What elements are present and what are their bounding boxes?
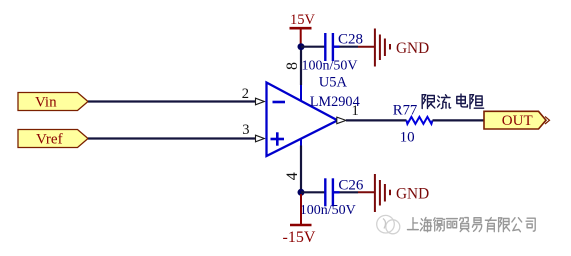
label 限流电阻 (current-limiting resistor) [422,94,483,108]
pin 8 lead (blue) [300,85,302,102]
pin 2 arrowhead [256,98,265,105]
port Vref [18,130,88,148]
wire R77 to OUT [433,119,485,121]
svg-text:2: 2 [242,86,249,102]
op-amp U5A triangle [267,83,338,157]
svg-text:1: 1 [352,103,359,119]
power +15V symbol [290,12,316,46]
svg-text:4: 4 [284,172,301,180]
port Vin [18,93,88,111]
wire junction to C26 [301,191,325,193]
svg-text:C26: C26 [338,177,364,193]
svg-text:-15V: -15V [283,229,316,246]
capacitor C26 [325,178,339,206]
power -15V symbol [283,194,316,246]
svg-text:8: 8 [284,62,301,70]
svg-text:GND: GND [396,185,429,202]
node junction top [298,43,305,50]
svg-text:Vref: Vref [36,132,63,148]
wire top supply vertical [300,47,302,86]
op-amp minus input symbol [273,101,286,104]
resistor R77 [406,117,432,124]
wire bottom supply vertical [300,146,302,193]
wire Vref to pin3 [88,137,255,139]
svg-text:100n/50V: 100n/50V [302,59,358,74]
wire C28 to GND [340,46,359,48]
svg-text:GND: GND [396,40,429,57]
svg-text:Vin: Vin [35,95,57,111]
svg-text:15V: 15V [290,12,316,28]
svg-text:100n/50V: 100n/50V [300,203,356,218]
pin 3 arrowhead [256,135,265,142]
svg-text:OUT: OUT [502,113,533,129]
capacitor C28 [325,33,339,61]
svg-text:10: 10 [400,130,415,146]
op-amp plus input symbol [271,132,285,145]
wire pin1 to R77 [346,119,407,121]
wire C26 to GND [340,191,359,193]
ground symbol bottom [375,174,390,212]
ground symbol top [375,29,390,67]
watermark logo [377,215,400,233]
wire Vin to pin2 [88,100,255,102]
watermark text 上海衡丽贸易有限公司 [408,218,536,232]
port OUT [484,111,550,129]
node junction bottom [298,189,305,196]
svg-text:U5A: U5A [319,74,348,90]
wire junction to C28 [301,46,325,48]
svg-text:3: 3 [242,122,249,138]
svg-text:C28: C28 [338,31,363,47]
pin 1 arrowhead (output) [337,117,346,124]
svg-text:R77: R77 [393,102,417,118]
pin 4 lead (blue) [300,139,302,147]
